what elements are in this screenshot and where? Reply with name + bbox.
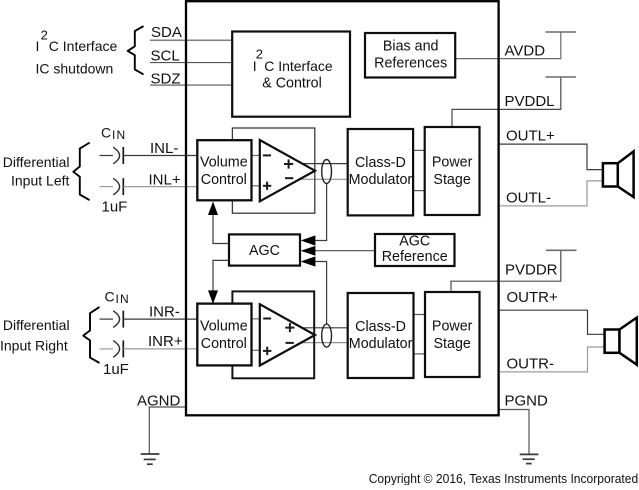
wire SDZ — [150, 84, 232, 86]
speaker left channel — [603, 151, 634, 197]
svg-text:IN: IN — [112, 128, 126, 142]
svg-text:OUTL+: OUTL+ — [506, 128, 555, 145]
op-amp A2 non-inverting input sign — [263, 347, 271, 355]
block Power Stage R — [425, 292, 480, 377]
capacitor 1uF left channel INL+ straight plate — [122, 178, 124, 195]
block Class-D Modulator R — [348, 293, 414, 378]
svg-text:Stage: Stage — [433, 172, 470, 188]
capacitor CIN left channel INL- curved plate — [113, 147, 119, 164]
svg-text:Control: Control — [201, 172, 247, 188]
svg-text:Power: Power — [432, 155, 473, 171]
svg-text:Modulator: Modulator — [349, 172, 413, 188]
wire INR+ input stub — [100, 348, 114, 350]
svg-text:Copyright © 2016, Texas Instru: Copyright © 2016, Texas Instruments Inco… — [369, 471, 639, 485]
svg-text:Differential: Differential — [3, 317, 70, 333]
svg-text:SCL: SCL — [151, 48, 180, 65]
wire INL+ input stub — [100, 186, 114, 188]
op-amp A1 left channel triangle — [260, 140, 315, 201]
svg-text:AGC: AGC — [399, 234, 430, 250]
wire SDA — [150, 39, 232, 41]
svg-text:Class-D: Class-D — [355, 155, 406, 171]
supply bar PVDDR — [546, 249, 577, 251]
wire Class-D R to Power Stage R lower — [412, 353, 425, 355]
svg-text:1uF: 1uF — [102, 199, 128, 216]
wire INL- to Volume Control — [123, 155, 197, 157]
svg-text:Volume: Volume — [200, 155, 248, 171]
op-amp surround rectangle R — [232, 291, 314, 378]
svg-text:PVDDR: PVDDR — [505, 262, 558, 279]
block AGC — [229, 234, 300, 265]
svg-text:C Interface: C Interface — [49, 38, 118, 54]
svg-text:C Interface: C Interface — [264, 58, 333, 74]
op-amp A2 right channel triangle — [260, 304, 315, 365]
arrowhead into AGC from ellipse L — [301, 235, 316, 245]
svg-text:OUTR+: OUTR+ — [507, 289, 558, 306]
op-amp surround rectangle L — [232, 128, 314, 213]
wire OUTR- to speaker — [499, 347, 605, 372]
wire op-amp R output- to Class-D Modulator R — [299, 342, 348, 344]
svg-text:SDA: SDA — [151, 24, 182, 41]
capacitor CIN right channel INR- straight plate — [122, 311, 124, 328]
svg-text:IN: IN — [116, 292, 130, 306]
op-amp A2 inverting input sign — [263, 318, 271, 320]
svg-text:Class-D: Class-D — [355, 319, 406, 335]
wire Volume Control L to op-amp inverting input — [251, 155, 260, 157]
capacitor 1uF right channel INR+ curved plate — [113, 341, 119, 358]
svg-text:Reference: Reference — [382, 249, 448, 265]
wire INR- input stub — [100, 318, 114, 320]
ground symbol PGND — [520, 454, 539, 463]
arrowhead into AGC from ellipse R — [301, 256, 316, 266]
op-amp A2 negative output sign — [286, 342, 294, 344]
capacitor 1uF left channel INL+ curved plate — [113, 178, 119, 195]
svg-text:OUTR-: OUTR- — [507, 356, 555, 373]
chip boundary — [186, 1, 499, 415]
wire op-amp R output+ to Class-D Modulator R — [300, 327, 348, 329]
svg-text:Differential: Differential — [3, 154, 70, 170]
svg-text:INL-: INL- — [150, 140, 178, 157]
svg-text:C: C — [101, 125, 111, 141]
block U1 I2C Interface and Control — [232, 32, 350, 117]
op-amp A1 inverting input sign — [263, 154, 271, 156]
svg-text:Input Right: Input Right — [0, 338, 68, 354]
wire AGC to ellipse R arrow feed — [315, 262, 327, 325]
arrowhead into AGC from AGC Reference — [301, 246, 316, 256]
wire Volume Control R to op-amp non-inverting input — [251, 349, 260, 351]
wire Volume Control L to op-amp non-inverting input — [251, 185, 260, 187]
svg-text:I: I — [36, 38, 40, 54]
wire PVDDL from Power Stage L to supply — [452, 77, 561, 128]
block AGC Reference — [375, 234, 455, 266]
svg-text:Volume: Volume — [200, 318, 248, 334]
svg-text:INR-: INR- — [149, 304, 180, 321]
svg-text:& Control: & Control — [262, 75, 322, 91]
svg-text:INR+: INR+ — [148, 333, 183, 350]
svg-text:References: References — [374, 56, 447, 72]
svg-text:INL+: INL+ — [149, 172, 181, 189]
svg-text:PGND: PGND — [505, 393, 549, 410]
svg-text:Modulator: Modulator — [349, 336, 413, 352]
svg-text:AVDD: AVDD — [505, 43, 546, 60]
wire INR- to Volume Control — [123, 318, 197, 320]
wire ellipse L to AGC input arrow — [315, 183, 327, 241]
wire AGC to Volume Control R (gain control) — [213, 260, 229, 292]
wire Class-D R to Power Stage R upper — [412, 314, 425, 316]
op-amp A1 negative output sign — [285, 177, 293, 179]
svg-text:Power: Power — [432, 318, 473, 334]
differential signal ellipse L — [322, 160, 332, 184]
wire AGND — [149, 407, 186, 454]
capacitor 1uF right channel INR+ straight plate — [122, 340, 124, 357]
capacitor CIN right channel INR- curved plate — [113, 311, 119, 328]
svg-text:IC shutdown: IC shutdown — [36, 61, 114, 77]
speaker right channel — [605, 318, 637, 365]
wire Class-D L to Power Stage L lower — [412, 190, 425, 192]
svg-text:OUTL-: OUTL- — [506, 190, 551, 207]
block Class-D Modulator L — [348, 129, 413, 215]
svg-text:Stage: Stage — [434, 336, 471, 352]
wire op-amp L output- to Class-D Modulator L — [299, 178, 348, 180]
svg-text:AGC: AGC — [249, 243, 280, 259]
svg-text:2: 2 — [41, 28, 48, 43]
svg-text:C: C — [105, 289, 115, 305]
svg-text:PVDDL: PVDDL — [505, 93, 555, 110]
wire PVDDR from Power Stage R to supply — [451, 250, 561, 292]
arrowhead AGC into Volume Control L — [208, 201, 218, 215]
differential signal ellipse R — [322, 324, 332, 347]
arrowhead AGC into Volume Control R — [208, 290, 218, 304]
wire op-amp L output+ to Class-D Modulator L — [300, 163, 348, 165]
brace for I2C interface pins — [128, 27, 143, 75]
block Volume Control R — [197, 304, 251, 366]
wire AVDD from Bias block to supply — [455, 32, 561, 59]
wire INR+ to Volume Control — [123, 348, 197, 350]
supply bar PVDDL — [546, 76, 577, 78]
svg-text:Control: Control — [201, 336, 247, 352]
ground symbol AGND — [141, 454, 160, 464]
block Volume Control L — [197, 140, 251, 200]
op-amp A1 non-inverting input sign — [263, 182, 271, 190]
wire Volume Control R to op-amp inverting input — [251, 318, 260, 320]
supply bar AVDD — [546, 31, 577, 33]
op-amp A1 positive output sign — [284, 159, 293, 168]
wire OUTR+ to speaker — [499, 310, 605, 334]
brace for Differential Input Left — [73, 143, 89, 200]
wire PGND — [499, 410, 529, 454]
svg-text:Bias and: Bias and — [383, 39, 439, 55]
block Power Stage L — [425, 127, 480, 215]
wire INL+ to Volume Control — [123, 186, 197, 188]
wire INL- input stub — [100, 155, 114, 157]
wire OUTL- to speaker — [499, 181, 603, 206]
brace for Differential Input Right — [83, 307, 99, 362]
wire Class-D L to Power Stage L upper — [412, 149, 425, 151]
wire OUTL+ to speaker — [499, 144, 603, 170]
wire AGC Reference to AGC arrow — [315, 250, 375, 252]
svg-text:AGND: AGND — [137, 393, 181, 410]
block Bias and References — [365, 33, 455, 78]
wire AGC to Volume Control L (gain control) — [213, 213, 229, 244]
op-amp A2 positive output sign — [285, 323, 294, 332]
svg-text:1uF: 1uF — [103, 361, 129, 378]
capacitor CIN left channel INL- straight plate — [122, 147, 124, 164]
svg-text:2: 2 — [256, 47, 263, 62]
wire SCL — [150, 62, 232, 64]
svg-text:Input Left: Input Left — [11, 173, 69, 189]
svg-text:SDZ: SDZ — [151, 71, 181, 88]
